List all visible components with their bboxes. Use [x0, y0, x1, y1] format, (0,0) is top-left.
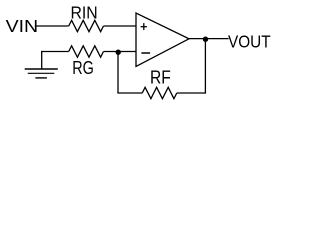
op-amp U1 triangle [136, 13, 189, 66]
node output junction dot [203, 37, 208, 42]
wire feedback bottom rail left [117, 92, 142, 94]
wire op-amp output to VOUT [189, 38, 229, 40]
svg-text:RF: RF [150, 67, 171, 87]
svg-text:RG: RG [72, 58, 94, 78]
svg-text:VIN: VIN [6, 16, 39, 36]
ground symbol [25, 69, 58, 78]
node junction dot at inverting input [116, 50, 121, 55]
wire RIN to op-amp noninverting input [104, 25, 137, 27]
wire ground to RG [41, 51, 69, 53]
svg-text:VOUT: VOUT [228, 31, 271, 51]
wire feedback bottom rail right [177, 92, 206, 94]
ground riser wire [41, 51, 43, 69]
resistor RIN [69, 20, 104, 31]
op-amp minus input symbol [141, 52, 150, 54]
wire feedback left vertical [117, 52, 119, 94]
op-amp plus input symbol [141, 23, 147, 30]
wire VIN to RIN [36, 25, 68, 27]
wire RG to op-amp inverting input [104, 51, 137, 53]
wire feedback right vertical [204, 39, 206, 94]
svg-text:RIN: RIN [71, 3, 98, 23]
resistor RG [69, 46, 104, 57]
resistor RF [142, 87, 177, 98]
